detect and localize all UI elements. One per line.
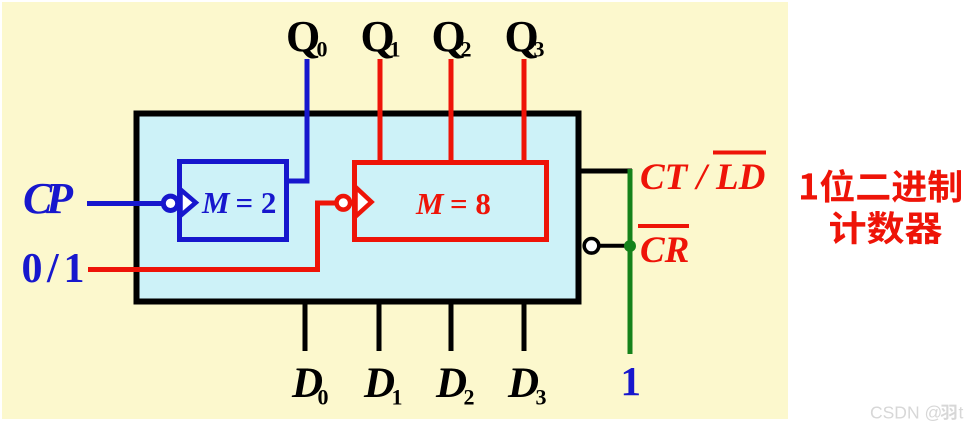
wire CP: [87, 201, 163, 206]
svg-text:0: 0: [317, 37, 328, 62]
svg-text:D: D: [507, 360, 539, 407]
svg-text:1: 1: [390, 37, 401, 62]
wire Q3: [522, 59, 527, 164]
svg-text:M: M: [415, 186, 445, 221]
svg-text:= 2: = 2: [236, 185, 277, 220]
wire net-1 (green, tied to 1): [628, 169, 633, 354]
wire D2: [449, 303, 454, 351]
svg-text:2: 2: [464, 385, 475, 410]
svg-text:1: 1: [64, 246, 85, 292]
svg-text:0: 0: [22, 246, 43, 292]
background panel: [2, 2, 788, 419]
counter body box: [137, 114, 579, 302]
svg-text:/: /: [46, 246, 60, 292]
svg-text:CR: CR: [640, 230, 689, 271]
annotation: 1-bit binary counter (1位二进制 / 计数器): [801, 173, 817, 199]
clock triangle U1: [181, 190, 196, 216]
svg-text:CP: CP: [23, 174, 74, 223]
wire Q2: [449, 59, 454, 164]
wire CT/LD stub: [581, 169, 632, 174]
svg-text:M: M: [201, 185, 231, 220]
clock bubble U1: [163, 196, 177, 210]
wire Q0: [288, 59, 307, 181]
wire D3: [522, 303, 527, 351]
svg-text:3: 3: [534, 37, 545, 62]
svg-text:D: D: [435, 360, 467, 407]
svg-text:0: 0: [318, 385, 329, 410]
svg-text:2: 2: [461, 37, 472, 62]
divider U2 M=8 box: [355, 163, 547, 240]
svg-text:t: t: [959, 403, 964, 423]
wire CR stub: [600, 244, 630, 248]
wire D0: [303, 303, 308, 351]
svg-text:3: 3: [536, 385, 547, 410]
wire 0/1 mode input: [88, 203, 336, 270]
svg-text:CT / LD: CT / LD: [640, 157, 765, 198]
svg-text:Q: Q: [286, 12, 320, 61]
clock bubble U2: [337, 196, 351, 210]
svg-text:1: 1: [392, 385, 403, 410]
bubble CR (active low): [584, 239, 599, 254]
clock triangle U2: [356, 187, 372, 217]
wire Q1: [378, 59, 383, 164]
svg-text:CSDN @: CSDN @: [870, 403, 942, 423]
junction dot on net-1: [624, 240, 636, 252]
wire D1: [377, 303, 382, 351]
svg-text:1: 1: [621, 358, 642, 404]
divider U1 M=2 box: [180, 162, 287, 240]
svg-text:= 8: = 8: [450, 186, 491, 221]
svg-text:D: D: [363, 360, 395, 407]
